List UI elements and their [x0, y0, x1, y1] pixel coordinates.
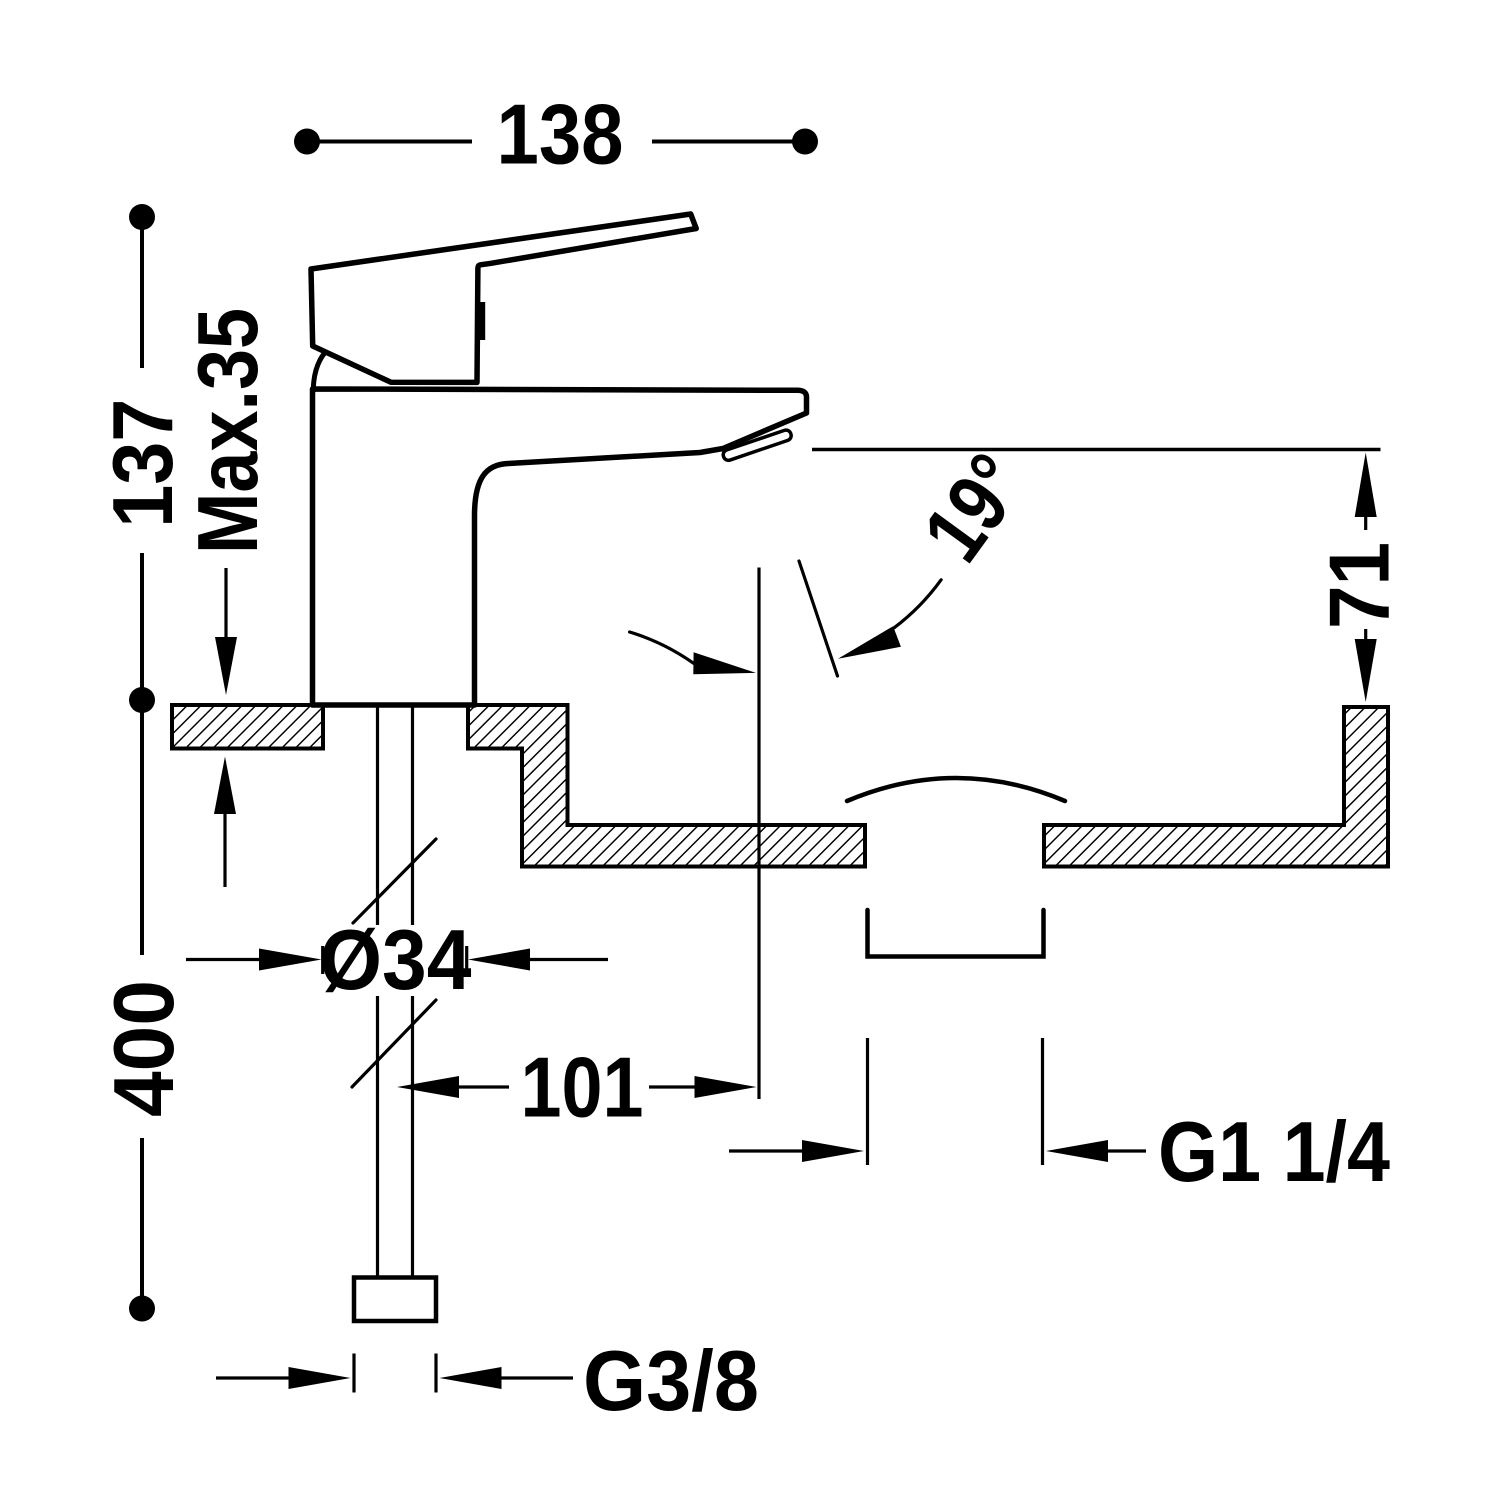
- dimension G3/8 (hose thread): [216, 1334, 759, 1429]
- dimension 138 (top width): [294, 88, 818, 183]
- svg-text:G3/8: G3/8: [583, 1334, 759, 1429]
- dimension 101 (spout reach): [397, 1041, 757, 1136]
- angle arc left with arrow: [630, 632, 756, 674]
- horizontal reference line from spout: [812, 448, 1381, 451]
- svg-text:137: 137: [96, 399, 191, 528]
- spout axis extension line: [757, 568, 760, 1100]
- cartridge dome arc: [313, 353, 325, 391]
- dimension 400 (left lower height): [97, 707, 192, 1322]
- dimension G1 1/4 (drain thread): [729, 1038, 1390, 1200]
- basin curved bottom line: [847, 778, 1065, 801]
- svg-text:Max.35: Max.35: [181, 308, 276, 554]
- countertop far-right L section (hatched): [1044, 707, 1388, 867]
- countertop right basin step (hatched Z section): [468, 705, 865, 867]
- supply hose tube lines: [378, 705, 413, 1278]
- svg-text:101: 101: [521, 1041, 644, 1136]
- 19 degree slanted reference line: [799, 561, 838, 676]
- dimension Max.35 (countertop thickness): [181, 308, 276, 887]
- angle arc right with arrow: [838, 580, 941, 659]
- aerator: [722, 429, 793, 462]
- svg-text:138: 138: [497, 88, 624, 183]
- drain tailpiece U outline: [868, 910, 1044, 957]
- handle cartridge seam bar: [480, 302, 486, 340]
- dimension 137 (left height): [96, 204, 191, 713]
- dimension 71 (spout height): [1312, 453, 1407, 703]
- svg-text:71: 71: [1312, 542, 1407, 629]
- faucet body and spout outline: [313, 389, 807, 705]
- countertop left block (hatched section): [172, 705, 323, 749]
- dimension O34 (shank diameter): [186, 839, 608, 1087]
- handle lever: [311, 214, 696, 382]
- svg-text:G1 1/4: G1 1/4: [1158, 1105, 1390, 1200]
- svg-text:Ø34: Ø34: [320, 913, 472, 1008]
- svg-text:400: 400: [97, 980, 192, 1117]
- hose end connector block: [354, 1278, 436, 1322]
